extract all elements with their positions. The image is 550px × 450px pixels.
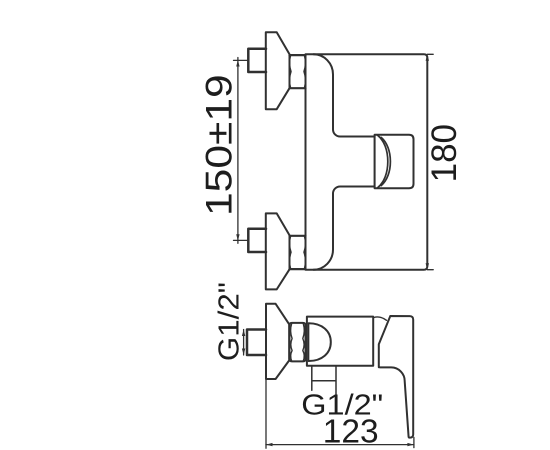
cap seam bbox=[374, 137, 376, 187]
dimension 180 ticks bbox=[427, 54, 433, 269]
svg-text:G1/2": G1/2" bbox=[213, 282, 245, 361]
dome chord bbox=[308, 323, 310, 361]
top nut left facet line bbox=[290, 55, 291, 88]
svg-text:150±19: 150±19 bbox=[199, 74, 240, 216]
side nut right facet line bbox=[303, 323, 304, 361]
150 dim arrows bbox=[236, 60, 239, 67]
outlet stub bbox=[312, 366, 336, 411]
svg-text:123: 123 bbox=[323, 414, 379, 450]
svg-text:180: 180 bbox=[425, 124, 464, 182]
bottom connection: nut bbox=[290, 236, 306, 269]
G1/2 dim line bbox=[243, 330, 245, 356]
cap dome arc outer bbox=[378, 135, 388, 188]
handle bbox=[379, 316, 413, 438]
top connection: extension line bbox=[234, 59, 249, 61]
top connection: threaded nipple bbox=[248, 49, 266, 72]
123 dim arrows bbox=[266, 443, 273, 446]
dome arc bbox=[309, 323, 331, 361]
dimension 150±19 line bbox=[237, 58, 239, 244]
123 dimension bbox=[266, 380, 414, 449]
180 dim arrows bbox=[426, 54, 429, 61]
bottom nut right facet line bbox=[304, 236, 305, 269]
cartridge cap body bbox=[375, 135, 414, 188]
side nut left facet line bbox=[291, 323, 292, 361]
side escutcheon cone bbox=[266, 304, 289, 379]
body inner contour (left recess) bbox=[314, 54, 375, 136]
top connection: nut bbox=[290, 55, 306, 88]
cap dome arc inner bbox=[381, 137, 390, 185]
top connection: escutcheon cone bbox=[266, 32, 290, 109]
bottom connection: threaded nipple bbox=[248, 229, 266, 252]
side nipple bbox=[247, 330, 266, 356]
G1/2 dim arrows bbox=[242, 330, 245, 337]
bottom nut left facet line bbox=[290, 236, 291, 269]
bottom connection: escutcheon cone bbox=[266, 213, 290, 289]
handle escutcheon arc bbox=[374, 317, 387, 320]
bottom connection: extension line bbox=[234, 239, 249, 241]
side nut bbox=[289, 323, 305, 362]
side body bbox=[307, 317, 373, 366]
body outer outline bbox=[306, 54, 428, 269]
top nut right facet line bbox=[304, 55, 305, 88]
arrows bbox=[236, 54, 429, 446]
